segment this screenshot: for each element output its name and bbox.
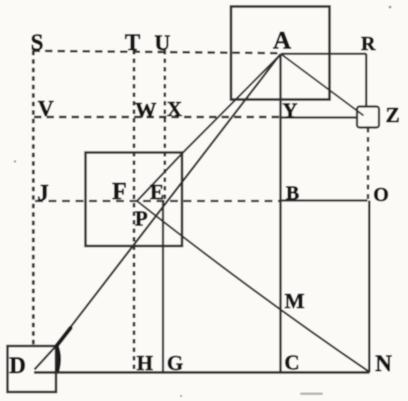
ray A to P: [137, 54, 281, 201]
ray A to D: [56, 54, 281, 346]
scan smudge below bottom line: [300, 393, 323, 396]
svg-text:M: M: [285, 289, 305, 313]
svg-text:N: N: [375, 351, 392, 376]
square ASRB (large, around A): [231, 7, 330, 100]
svg-text:D: D: [9, 353, 26, 378]
solid line R down to Z square: [365, 54, 367, 107]
dashed row V-W-X-Y at y=117: [34, 116, 280, 118]
svg-text:B: B: [286, 183, 299, 205]
bottom line D to N: [34, 371, 370, 374]
svg-text:U: U: [154, 30, 170, 55]
ray A-D continuation inside D square: [35, 346, 57, 370]
svg-text:X: X: [167, 97, 182, 121]
solid vertical A-B-C: [279, 54, 281, 373]
svg-text:J: J: [37, 180, 49, 205]
dashed column T-W down to H: [133, 50, 136, 372]
svg-text:R: R: [361, 33, 376, 55]
svg-text:A: A: [273, 28, 291, 55]
svg-text:P: P: [135, 207, 148, 231]
svg-text:S: S: [31, 30, 44, 55]
scan speck top right: [389, 6, 392, 9]
square around Z (small, right): [357, 107, 379, 128]
dashed column Z down to O: [367, 128, 369, 201]
dashed column U down to E: [164, 50, 167, 200]
solid vertical O to N: [368, 201, 370, 373]
svg-text:F: F: [112, 179, 127, 205]
dashed row S-T-U-A at y=51: [33, 51, 282, 53]
dashed row J-F-E-B at y=201: [35, 200, 281, 202]
svg-text:O: O: [373, 184, 389, 206]
svg-text:W: W: [135, 98, 157, 122]
square around F E P (middle): [86, 153, 183, 247]
solid line B to O: [281, 199, 368, 201]
svg-text:H: H: [137, 351, 153, 375]
square around D (small, bottom-left): [8, 346, 57, 392]
scan speck bottom left: [180, 395, 182, 397]
solid line Y to Z square: [282, 116, 358, 118]
svg-text:V: V: [38, 96, 54, 121]
heavy engraving stroke near D corner: [57, 328, 71, 372]
dashed column S-V-J down to D square: [32, 51, 35, 346]
scan speck left middle: [14, 160, 16, 162]
solid line A to R: [281, 53, 367, 55]
solid vertical E to G: [162, 201, 164, 373]
svg-text:Y: Y: [282, 99, 297, 123]
svg-text:T: T: [125, 30, 140, 55]
svg-text:G: G: [167, 351, 183, 375]
svg-text:E: E: [150, 180, 164, 204]
svg-text:Z: Z: [386, 103, 400, 127]
ray A to Z: [281, 54, 364, 116]
ray P to N: [137, 201, 370, 372]
svg-text:C: C: [284, 351, 299, 375]
